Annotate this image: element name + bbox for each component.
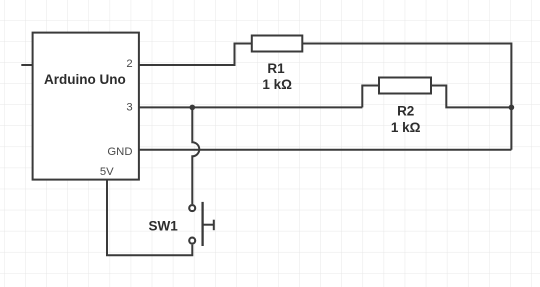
svg-text:1 kΩ: 1 kΩ (262, 77, 292, 92)
resistor R2 (379, 78, 431, 94)
svg-text:R1: R1 (267, 61, 285, 76)
node junction dot pin3 rail (190, 105, 196, 111)
node junction dot right rail (509, 105, 515, 111)
svg-text:Arduino Uno: Arduino Uno (44, 72, 126, 87)
svg-text:2: 2 (126, 58, 132, 70)
wire switch bottom to 5V pin (107, 180, 192, 256)
wire left stub of Arduino (21, 64, 32, 66)
Arduino U1 box (33, 33, 139, 180)
wire R2 right lead to junction (431, 86, 511, 108)
wire GND rail (139, 149, 512, 151)
resistor R1 (252, 36, 302, 52)
switch SW1 actuator cap (213, 220, 215, 231)
switch SW1 actuator bar (201, 202, 203, 246)
switch SW1 actuator stem (203, 224, 214, 226)
switch SW1 terminal circle top (189, 205, 195, 211)
wire R1 right to top-right corner down to GND rail (302, 44, 511, 150)
wire junction down to switch with hop over GND rail (192, 107, 199, 204)
wire pin 2 to R1 left (139, 44, 252, 66)
svg-text:5V: 5V (100, 166, 114, 178)
svg-text:3: 3 (126, 102, 132, 114)
svg-text:SW1: SW1 (148, 218, 178, 233)
wire R2 left lead (362, 86, 379, 108)
switch SW1 terminal circle bottom (189, 238, 195, 244)
wire pin 3 rail (139, 106, 362, 108)
svg-text:GND: GND (107, 146, 132, 158)
svg-text:1 kΩ: 1 kΩ (391, 120, 421, 135)
svg-text:R2: R2 (397, 103, 414, 118)
